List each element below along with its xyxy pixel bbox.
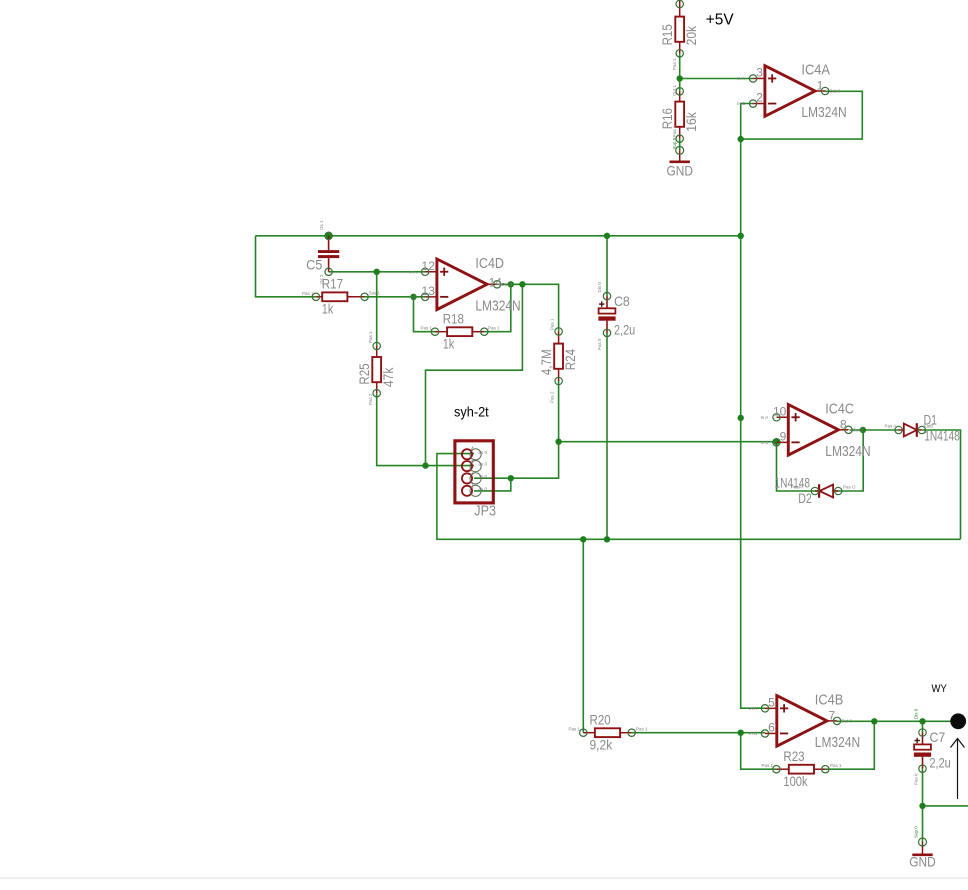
wire C8 top drop: [606, 236, 608, 296]
svg-text:In A: In A: [749, 706, 757, 711]
resistor R25: [376, 346, 378, 357]
svg-text:7: 7: [829, 708, 836, 722]
connector JP3: [455, 441, 493, 503]
wire R23 loop right: [825, 721, 874, 769]
svg-text:Out 0: Out 0: [841, 718, 853, 723]
svg-text:KatB: KatB: [924, 424, 934, 429]
wire R25 bottom to JP pin2: [377, 393, 474, 465]
wire IC4B out to WY: [837, 720, 951, 722]
svg-text:Pas 1: Pas 1: [488, 326, 500, 331]
svg-text:D2: D2: [798, 490, 812, 506]
svg-text:In B: In B: [749, 731, 757, 736]
diode D2: [815, 490, 819, 492]
junction vref divider: [677, 75, 683, 81]
svg-text:Pas 1: Pas 1: [421, 326, 433, 331]
svg-text:2: 2: [756, 91, 763, 105]
svg-text:GND: GND: [666, 163, 693, 179]
op-amp IC4B: [765, 707, 777, 709]
svg-text:In A: In A: [737, 76, 745, 81]
svg-text:4,7M: 4,7M: [538, 349, 554, 375]
capacitor C8: [606, 296, 608, 308]
resistor R16: [679, 91, 681, 101]
resistor R24: [558, 331, 560, 343]
window bottom edge: [0, 877, 968, 878]
wire C8 bottom to bus2: [606, 333, 608, 539]
junction out14 branch: [519, 281, 525, 287]
wire feedback to pin2: [741, 104, 753, 140]
junction out7 R23: [871, 718, 877, 724]
svg-text:LM324N: LM324N: [475, 297, 520, 314]
wire D1 to bus2: [922, 430, 961, 539]
svg-text:GND: GND: [909, 854, 936, 870]
svg-text:WY: WY: [932, 683, 948, 695]
output probe blob: [950, 713, 966, 729]
wire left branch down: [256, 236, 316, 297]
svg-text:Pas 1: Pas 1: [672, 125, 677, 137]
svg-text:+5V: +5V: [706, 11, 734, 28]
svg-text:Pas 1: Pas 1: [636, 727, 648, 732]
svg-text:Pas 2: Pas 2: [368, 393, 373, 405]
resistor R18: [435, 331, 447, 333]
svg-text:In A: In A: [761, 415, 769, 420]
svg-text:Pas 1: Pas 1: [368, 331, 373, 343]
junction pin12 R25: [374, 269, 380, 275]
wire R18 right up: [484, 284, 511, 331]
svg-text:R23: R23: [783, 748, 804, 764]
wire bus2 to R20: [582, 539, 584, 732]
svg-text:Os 2: Os 2: [319, 274, 324, 284]
wire R25 top drop: [376, 272, 378, 346]
svg-text:1k: 1k: [322, 300, 334, 316]
junction JP3 node: [508, 475, 514, 481]
resistor R15: [679, 0, 681, 17]
wire vref vertical main: [741, 139, 765, 708]
junction R24 pin9 node: [555, 439, 561, 445]
svg-text:2,2u: 2,2u: [614, 322, 635, 338]
junction pin13 node: [410, 294, 416, 300]
wire R24 net to JP pin3: [474, 442, 559, 479]
svg-text:8: 8: [840, 417, 847, 431]
junction bus2 C8: [604, 536, 610, 542]
junction vref pin10: [738, 415, 744, 421]
wire pin9 to D2 loop: [777, 430, 864, 491]
svg-text:LM324N: LM324N: [825, 443, 870, 460]
op-amp IC4C: [777, 416, 789, 418]
annotation arrow: [957, 739, 959, 799]
wire R24 bottom to pin9: [559, 381, 777, 442]
svg-text:13: 13: [422, 284, 436, 298]
svg-text:Pas 1: Pas 1: [762, 763, 774, 768]
svg-text:R18: R18: [443, 311, 464, 327]
ground: [922, 842, 924, 855]
junction feedback corner: [738, 136, 744, 142]
wire JP pin4 jog: [474, 478, 511, 491]
svg-text:Pas O: Pas O: [843, 485, 856, 490]
svg-text:12: 12: [422, 259, 436, 273]
wire pin13 to R18: [414, 297, 436, 332]
wire R23 loop left: [741, 733, 777, 770]
svg-text:Pas 1: Pas 1: [672, 58, 677, 70]
svg-text:5: 5: [768, 695, 775, 709]
svg-text:Pas 2: Pas 2: [550, 391, 555, 403]
wire C7 bottom to GND: [922, 769, 924, 842]
svg-text:Pas 0: Pas 0: [913, 773, 918, 785]
wire R16 to GND pin: [679, 139, 681, 151]
svg-text:as 0: as 0: [479, 462, 488, 467]
svg-text:as 0: as 0: [479, 486, 488, 491]
svg-text:C7: C7: [930, 729, 946, 745]
svg-text:R17: R17: [322, 276, 343, 292]
wire top bus: [256, 235, 741, 237]
svg-text:R25: R25: [356, 363, 372, 384]
svg-text:Sas 1: Sas 1: [369, 291, 381, 296]
svg-text:Pas 0: Pas 0: [597, 338, 602, 350]
svg-text:In B: In B: [737, 101, 745, 106]
wire R15 junction to IC4A pin3: [679, 53, 681, 91]
svg-text:as 0: as 0: [479, 450, 488, 455]
svg-text:Sup 0: Sup 0: [913, 826, 918, 838]
svg-text:Dis 0: Dis 0: [913, 708, 918, 719]
junction bus1 C8: [604, 233, 610, 239]
svg-text:Dis 0: Dis 0: [597, 282, 602, 293]
svg-text:syh-2t: syh-2t: [454, 404, 489, 420]
wire JP pin1 down to bus2: [437, 454, 961, 540]
wire IC4D out to R24: [497, 284, 559, 331]
svg-text:In B: In B: [409, 294, 417, 299]
svg-text:as 0: as 0: [479, 474, 488, 479]
svg-text:Pas A: Pas A: [885, 424, 897, 429]
resistor R17: [316, 296, 322, 298]
svg-text:1: 1: [817, 79, 824, 93]
wire C7 gnd stub right: [923, 805, 968, 807]
op-amp IC4A: [753, 77, 765, 79]
svg-text:3: 3: [756, 66, 763, 80]
svg-text:In A: In A: [409, 269, 417, 274]
junction IC4C out node: [860, 427, 866, 433]
svg-text:In B: In B: [761, 440, 769, 445]
svg-text:10: 10: [773, 404, 787, 418]
resistor R23: [776, 768, 788, 770]
svg-text:20k: 20k: [683, 25, 699, 45]
svg-text:JP3: JP3: [474, 503, 496, 520]
svg-text:IC4A: IC4A: [801, 62, 830, 79]
svg-text:16k: 16k: [683, 111, 699, 131]
junction out14 R18: [508, 281, 514, 287]
svg-text:LM324N: LM324N: [815, 734, 860, 751]
svg-text:LM324N: LM324N: [801, 104, 846, 121]
svg-text:IC4C: IC4C: [825, 400, 854, 417]
junction out7 C7: [919, 718, 925, 724]
capacitor C7: [922, 733, 924, 745]
svg-text:Pas 1: Pas 1: [830, 763, 842, 768]
resistor R20: [583, 732, 595, 734]
op-amp IC4D: [425, 271, 437, 273]
svg-text:Os 1: Os 1: [319, 220, 324, 230]
wire IC4A output feedback: [741, 91, 863, 139]
svg-text:9,2k: 9,2k: [590, 736, 614, 752]
junction C7 gnd node: [919, 803, 925, 809]
svg-text:Out 1: Out 1: [672, 84, 677, 96]
junction pin9 feedback: [773, 439, 779, 445]
svg-text:Out 0: Out 0: [853, 427, 865, 432]
svg-text:Out 0: Out 0: [501, 282, 513, 287]
svg-text:1k: 1k: [443, 335, 455, 351]
wire R20 to pin6: [632, 732, 765, 734]
wire R17 to pin13: [365, 296, 426, 298]
junction R20 R23 node: [738, 730, 744, 736]
svg-text:Pas 1: Pas 1: [302, 291, 314, 296]
svg-text:2,2u: 2,2u: [930, 755, 951, 771]
junction bus2 R20: [580, 536, 586, 542]
wire out to C7: [922, 721, 924, 732]
wire IC4C out to D1: [850, 429, 899, 431]
junction JP2 node: [422, 462, 428, 468]
wire out branch to JP2: [426, 284, 523, 465]
wire C5 bottom to pin12: [329, 271, 426, 273]
junction bus1 main: [738, 233, 744, 239]
svg-text:1N4148: 1N4148: [924, 428, 960, 444]
capacitor C5: [328, 236, 330, 250]
svg-text:PasA: PasA: [791, 485, 802, 490]
svg-text:R24: R24: [562, 349, 578, 370]
diode D1: [899, 429, 904, 431]
wire vref to pin3: [680, 78, 753, 80]
svg-text:Sup 0: Sup 0: [672, 137, 677, 149]
svg-text:100k: 100k: [783, 773, 808, 789]
svg-text:6: 6: [768, 720, 775, 734]
svg-text:47k: 47k: [380, 367, 396, 387]
svg-text:IC4B: IC4B: [815, 691, 844, 708]
svg-text:R20: R20: [590, 712, 611, 728]
svg-text:Pas 1: Pas 1: [550, 318, 555, 330]
junction C5 top: [325, 233, 331, 239]
svg-text:9: 9: [780, 429, 787, 443]
svg-text:Pas 1: Pas 1: [569, 727, 581, 732]
svg-text:Out 0: Out 0: [829, 89, 841, 94]
svg-text:C8: C8: [614, 293, 630, 309]
svg-text:R15: R15: [659, 24, 675, 45]
svg-text:IC4D: IC4D: [475, 255, 504, 272]
ground: [679, 150, 681, 161]
svg-text:C5: C5: [306, 257, 322, 273]
